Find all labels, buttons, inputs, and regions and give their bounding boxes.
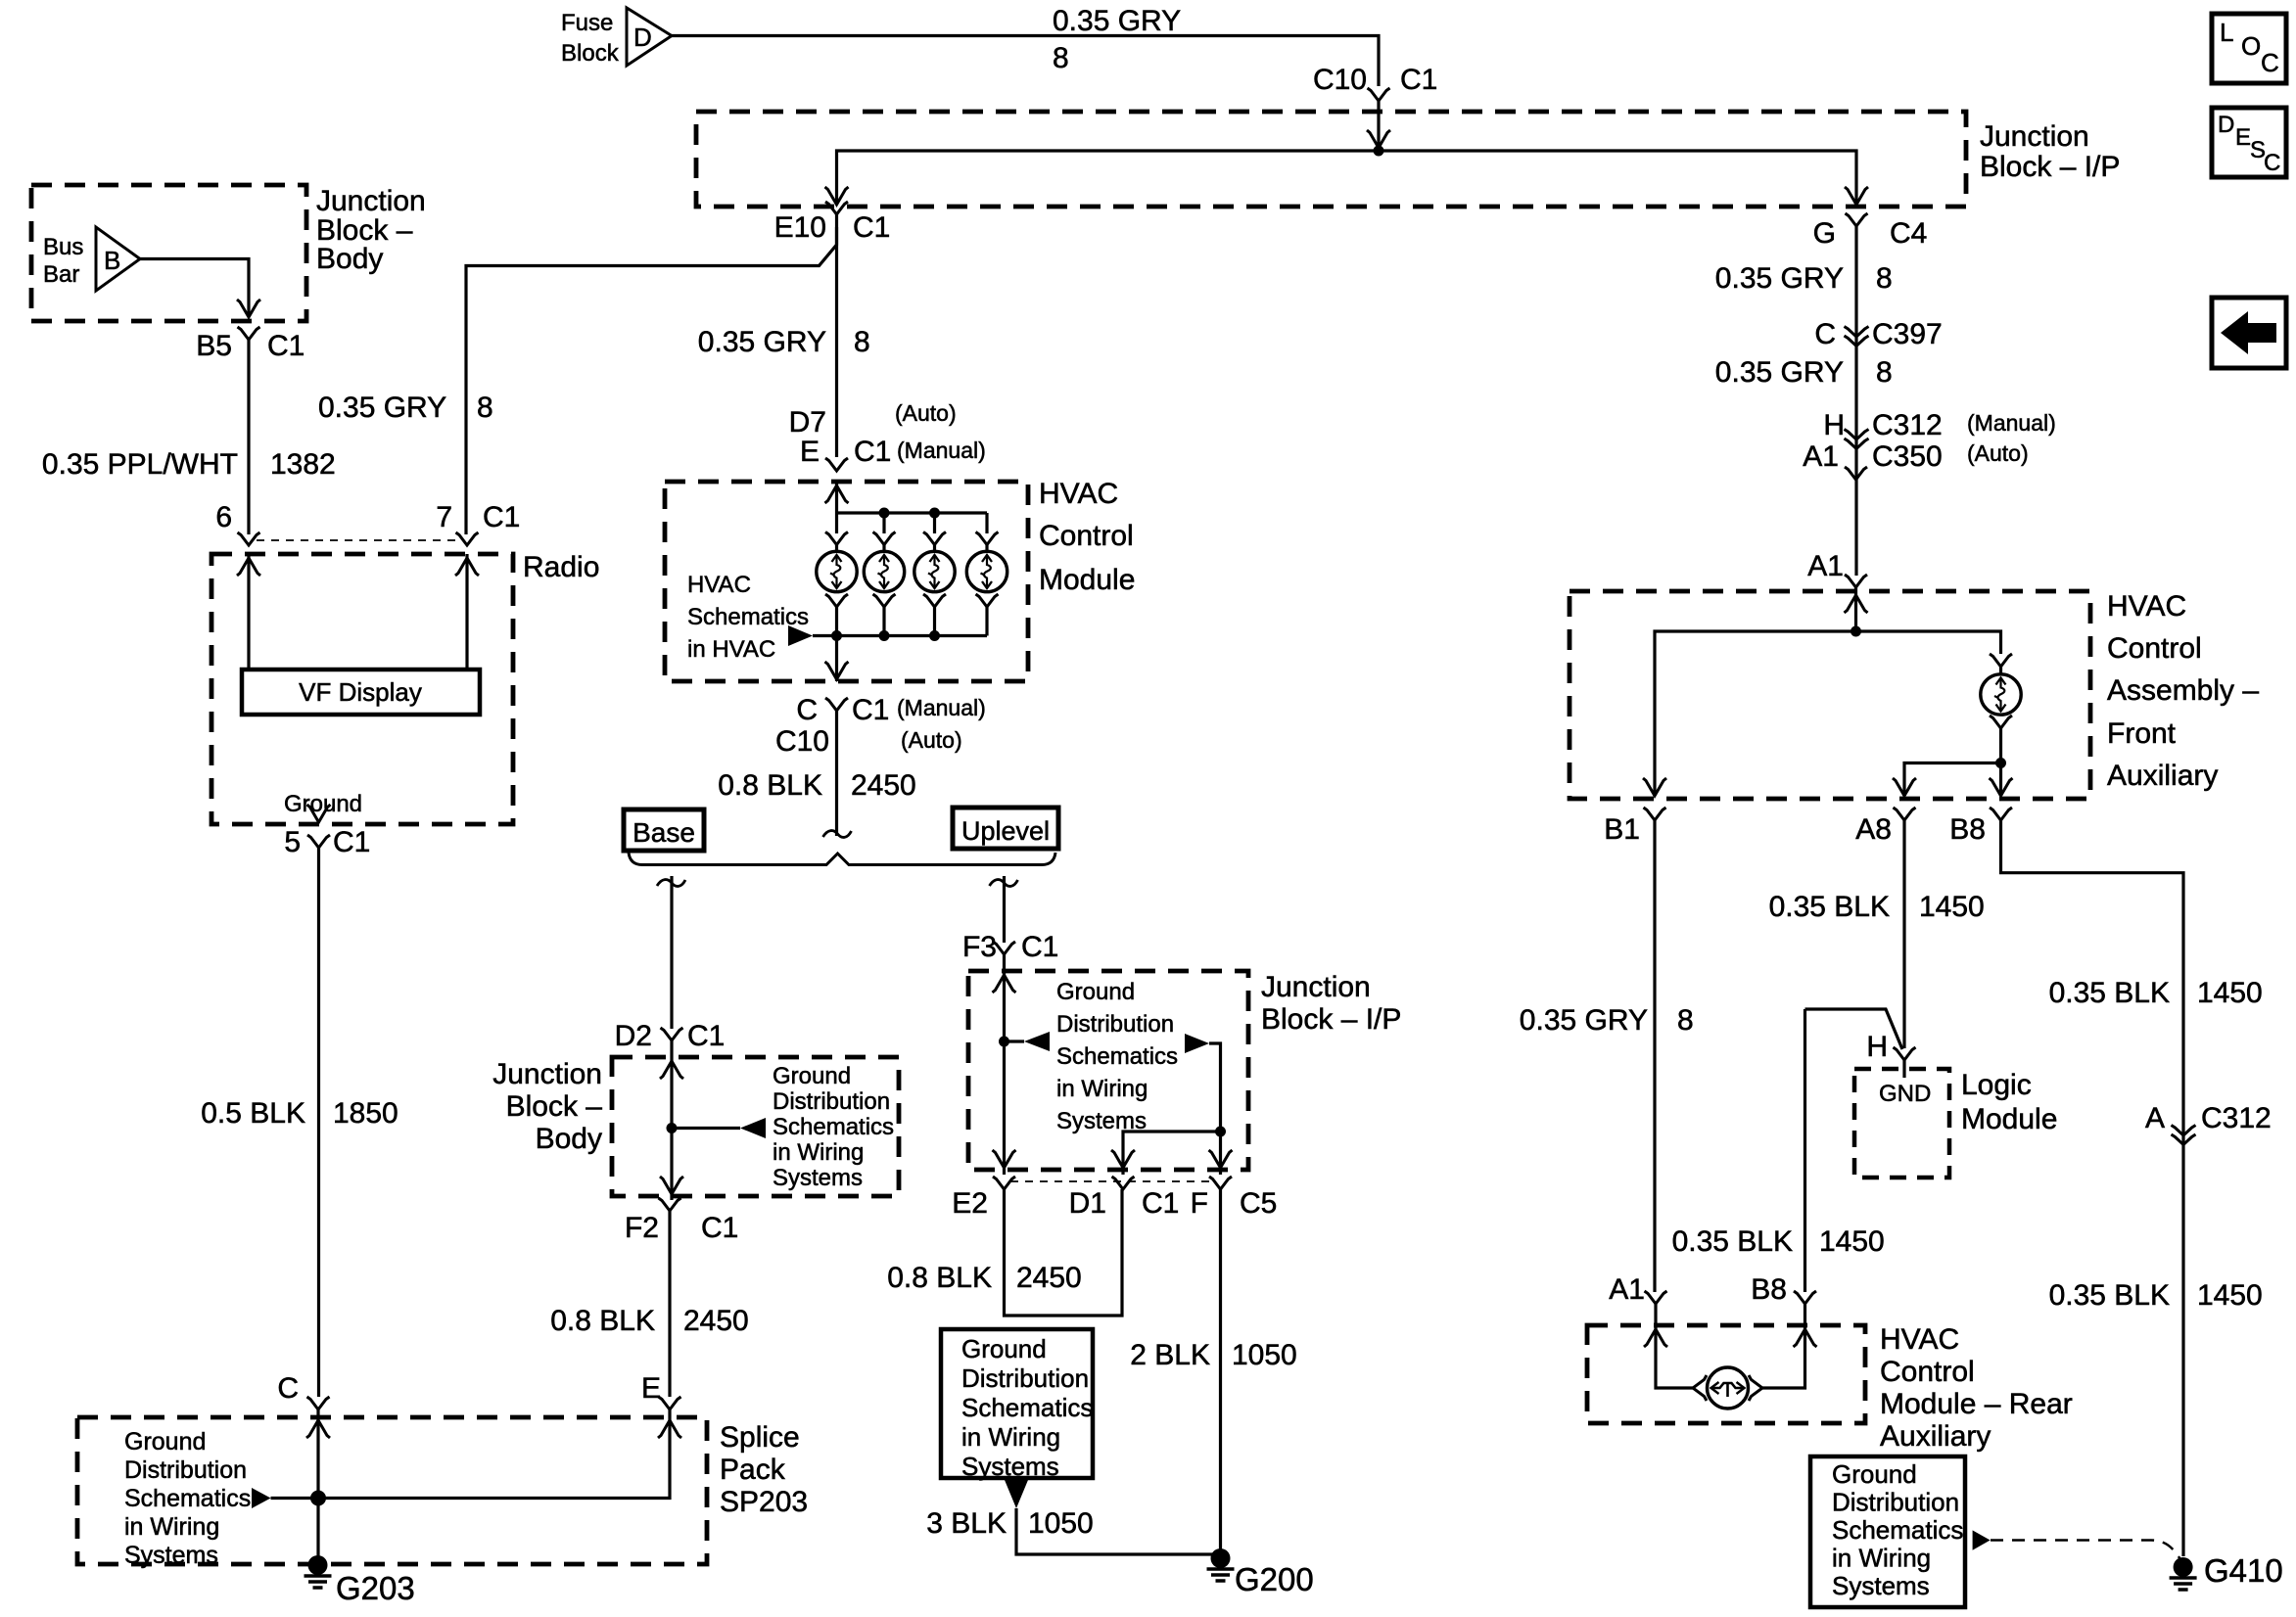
svg-text:G203: G203	[336, 1570, 415, 1606]
svg-text:Junction: Junction	[1261, 971, 1371, 1003]
svg-text:A1: A1	[1807, 550, 1844, 582]
wire to B8 exit	[1999, 763, 2002, 797]
pointer down from box	[1005, 1480, 1028, 1508]
junction block I/P dashed box (top)	[696, 112, 1966, 207]
pointer right to G410	[1973, 1530, 1991, 1549]
split brace	[629, 853, 1055, 865]
svg-text:Schematics: Schematics	[687, 604, 809, 630]
connector right of rear actuator	[1749, 1375, 1762, 1401]
connector F2 C1	[659, 1198, 681, 1211]
svg-text:H: H	[1866, 1031, 1888, 1063]
wire C into splice to G203	[316, 1409, 319, 1565]
dot bottom bus 2	[929, 630, 940, 641]
svg-text:(Auto): (Auto)	[1967, 440, 2029, 466]
svg-text:C1: C1	[333, 826, 370, 858]
svg-text:(Auto): (Auto)	[901, 727, 962, 753]
svg-text:Pack: Pack	[720, 1454, 786, 1486]
squiggle left branch	[657, 880, 685, 887]
svg-text:0.35 BLK: 0.35 BLK	[1769, 891, 1890, 923]
wire E into splice	[271, 1409, 671, 1499]
arrow pin7	[455, 558, 479, 576]
svg-text:Body: Body	[316, 243, 383, 275]
connector B8 rear aux	[1794, 1291, 1816, 1304]
svg-text:C1: C1	[687, 1020, 725, 1052]
connector C10 C1 at junction block I/P	[1368, 88, 1390, 101]
ground distribution schematics box (bottom right)	[1810, 1456, 1965, 1607]
wire to C5 exit	[1219, 1132, 1222, 1175]
svg-text:C: C	[2261, 48, 2279, 77]
svg-text:C1: C1	[1400, 64, 1437, 96]
svg-text:Systems: Systems	[1832, 1571, 1930, 1600]
svg-text:2450: 2450	[683, 1305, 749, 1337]
entry wire A1	[1854, 587, 1857, 631]
svg-text:1450: 1450	[1819, 1225, 1885, 1258]
HVAC control module rear auxiliary dashed box	[1587, 1325, 1865, 1423]
svg-text:(Auto): (Auto)	[895, 400, 957, 426]
svg-text:1050: 1050	[1028, 1507, 1094, 1540]
svg-text:B1: B1	[1604, 813, 1640, 846]
svg-text:D: D	[2218, 112, 2234, 138]
svg-text:Distribution: Distribution	[1832, 1488, 1959, 1517]
Base option box	[624, 809, 704, 851]
connector B1	[1644, 808, 1666, 820]
connector A1 rear aux	[1645, 1291, 1667, 1304]
radio pin7 wire to VF display	[465, 554, 468, 670]
pointer to ground distribution schematics	[740, 1118, 766, 1138]
exit arrow C5	[1209, 1150, 1233, 1168]
connector below motor 3	[923, 594, 946, 607]
svg-text:Control: Control	[1880, 1356, 1975, 1388]
svg-text:HVAC: HVAC	[2107, 590, 2186, 623]
wire C5 to G200 (2 BLK 1050)	[1219, 1189, 1222, 1551]
wire E10 to HVAC control module (0.35 GRY 8)	[835, 227, 838, 457]
DESC reference box	[2212, 108, 2286, 177]
connector Y at HVAC module E/C1	[825, 458, 848, 471]
wire bus bar to B5	[140, 259, 249, 318]
svg-text:Splice: Splice	[720, 1421, 800, 1454]
ground G410	[2174, 1557, 2193, 1577]
svg-text:B8: B8	[1949, 813, 1986, 846]
svg-text:Ground: Ground	[773, 1063, 851, 1089]
svg-text:E: E	[641, 1372, 661, 1405]
svg-text:1050: 1050	[1232, 1339, 1297, 1371]
pointer left to ground distribution schematics	[252, 1488, 271, 1508]
svg-text:0.35 GRY: 0.35 GRY	[1715, 356, 1844, 389]
back arrow box	[2212, 298, 2286, 368]
svg-text:8: 8	[1053, 42, 1069, 74]
svg-text:Systems: Systems	[124, 1542, 218, 1569]
svg-text:GND: GND	[1879, 1081, 1931, 1107]
motor/actuator M1	[817, 551, 857, 591]
entry arrow F3	[993, 975, 1016, 993]
junction dot at bus	[1374, 146, 1384, 157]
double chevron C312/C350	[1845, 430, 1869, 440]
svg-text:8: 8	[854, 326, 870, 358]
svg-text:D: D	[633, 23, 652, 52]
svg-text:Auxiliary: Auxiliary	[2107, 760, 2218, 792]
svg-text:0.35 GRY: 0.35 GRY	[1520, 1004, 1648, 1037]
svg-text:Ground: Ground	[961, 1334, 1047, 1363]
wire E10 branch to radio pin 7 (0.35 GRY 8)	[466, 214, 837, 534]
svg-text:A8: A8	[1855, 813, 1892, 846]
wire A8 to logic module H (0.35 BLK 1450)	[1902, 820, 1905, 1048]
exit arrow A8	[1893, 778, 1916, 796]
svg-text:D2: D2	[615, 1020, 652, 1052]
connector above motor 2	[873, 532, 896, 545]
entry arrow C	[306, 1420, 330, 1438]
connector below actuator	[1990, 716, 2012, 728]
svg-text:Control: Control	[2107, 632, 2202, 665]
VF Display box	[242, 670, 480, 715]
entry arrow	[660, 1061, 683, 1079]
arrow to E10 exit	[825, 187, 849, 205]
svg-text:HVAC: HVAC	[687, 572, 751, 598]
svg-text:in Wiring: in Wiring	[124, 1513, 219, 1541]
svg-text:Radio: Radio	[523, 551, 599, 583]
svg-text:0.35 BLK: 0.35 BLK	[1672, 1225, 1793, 1258]
junction dot front aux	[1851, 626, 1861, 637]
junction dot splice	[310, 1491, 326, 1506]
svg-text:in HVAC: in HVAC	[687, 636, 775, 663]
squiggle right branch	[990, 880, 1018, 887]
svg-text:C5: C5	[1240, 1187, 1277, 1220]
connector B8	[1990, 808, 2012, 820]
svg-text:HVAC: HVAC	[1880, 1323, 1959, 1356]
svg-text:0.8 BLK: 0.8 BLK	[550, 1305, 655, 1337]
svg-text:L: L	[2220, 18, 2233, 47]
svg-text:C350: C350	[1872, 440, 1943, 473]
svg-text:Schematics: Schematics	[961, 1393, 1093, 1422]
wire 3 BLK 1050 to G200	[1016, 1508, 1221, 1558]
entry arrow E	[658, 1420, 681, 1438]
arrow pin6	[237, 558, 260, 576]
wire A1 into rear aux	[1656, 1304, 1693, 1388]
motor/actuator M3	[914, 551, 955, 591]
right branch wire (Uplevel)	[1003, 876, 1006, 943]
exit arrow B1	[1643, 778, 1666, 796]
svg-text:Bar: Bar	[43, 261, 79, 288]
svg-text:8: 8	[477, 392, 493, 424]
svg-text:0.35 PPL/WHT: 0.35 PPL/WHT	[42, 448, 238, 481]
svg-text:Base: Base	[633, 817, 695, 848]
junction dot in body block	[667, 1123, 678, 1133]
svg-text:VF Display: VF Display	[299, 677, 422, 707]
connector D2 C1	[661, 1028, 683, 1040]
svg-text:HVAC: HVAC	[1039, 478, 1118, 510]
svg-text:8: 8	[1677, 1004, 1694, 1037]
connector G C4	[1846, 213, 1868, 226]
svg-text:0.35 BLK: 0.35 BLK	[2049, 1279, 2170, 1312]
connector H at logic module	[1894, 1047, 1916, 1060]
svg-text:Distribution: Distribution	[961, 1363, 1089, 1393]
svg-text:7: 7	[436, 501, 452, 533]
exit arrow D1	[1111, 1150, 1135, 1168]
svg-text:Block – I/P: Block – I/P	[1980, 151, 2120, 183]
svg-text:Systems: Systems	[773, 1165, 863, 1191]
double chevron A C312	[2172, 1126, 2196, 1136]
svg-text:G410: G410	[2204, 1552, 2283, 1589]
svg-text:D1: D1	[1069, 1187, 1106, 1220]
svg-text:Auxiliary: Auxiliary	[1880, 1420, 1991, 1453]
connector E10 C1	[825, 202, 848, 214]
HVAC control module dashed box	[665, 482, 1028, 681]
svg-text:Junction: Junction	[316, 185, 426, 217]
svg-text:in Wiring: in Wiring	[1832, 1544, 1931, 1573]
svg-text:2450: 2450	[851, 769, 916, 802]
entry arrow A1 rear	[1644, 1329, 1667, 1347]
connector above motor 1	[825, 532, 848, 545]
svg-text:Fuse: Fuse	[561, 10, 613, 36]
exit arrow	[660, 1177, 683, 1194]
svg-text:Logic: Logic	[1961, 1069, 2032, 1101]
radio pin6 wire to VF display	[247, 554, 250, 670]
svg-text:1450: 1450	[2197, 977, 2263, 1009]
wire F3 into junction block I/P	[1003, 954, 1006, 1039]
svg-text:1850: 1850	[333, 1097, 398, 1130]
svg-text:Block –: Block –	[506, 1090, 603, 1123]
wire B5 to radio pin 6 (0.35 PPL/WHT 1382)	[247, 340, 250, 534]
radio dashed box	[211, 554, 513, 824]
thin dashed connector line (E2 D1 C5)	[1010, 1180, 1214, 1182]
Uplevel option box	[953, 808, 1058, 849]
junction block - body dashed box (middle)	[612, 1057, 899, 1196]
wire-break squiggle	[823, 831, 852, 838]
junction dot I/P block	[999, 1037, 1009, 1047]
svg-text:SP203: SP203	[720, 1486, 808, 1518]
svg-text:Module: Module	[1039, 564, 1135, 596]
connector Y below C350	[1845, 467, 1867, 480]
junction dot below actuator	[1995, 758, 2006, 768]
svg-text:Block – I/P: Block – I/P	[1261, 1003, 1401, 1036]
feed motor 3	[933, 513, 936, 533]
connector below motor 1	[825, 594, 848, 607]
U wire E2 to D1 (0.8 BLK 2450)	[1005, 1189, 1123, 1316]
svg-text:6: 6	[215, 501, 232, 533]
module top bus	[837, 511, 988, 514]
svg-text:C397: C397	[1872, 318, 1943, 350]
svg-text:1382: 1382	[270, 448, 336, 481]
svg-text:C312: C312	[1872, 409, 1943, 441]
rear auxiliary actuator	[1708, 1367, 1749, 1409]
wire B8 into rear aux	[1762, 1304, 1805, 1388]
svg-text:Systems: Systems	[961, 1452, 1059, 1481]
motor/actuator M2	[864, 551, 904, 591]
connector A8	[1894, 808, 1916, 820]
wire down to rear auxiliary B8 (0.35 BLK 1450)	[1804, 1009, 1806, 1292]
wire into junction block body	[670, 1040, 673, 1126]
svg-text:G: G	[1813, 217, 1836, 250]
connector above actuator	[1990, 654, 2012, 667]
connector B5 C1	[238, 327, 260, 340]
svg-text:0.35 GRY: 0.35 GRY	[698, 326, 826, 358]
dot on top bus	[879, 508, 890, 519]
svg-text:3 BLK: 3 BLK	[926, 1507, 1007, 1540]
svg-text:C312: C312	[2201, 1102, 2272, 1134]
double chevron C397	[1845, 327, 1869, 338]
svg-text:(Manual): (Manual)	[897, 438, 986, 463]
dot bottom bus	[879, 630, 890, 641]
svg-text:B: B	[104, 246, 120, 275]
svg-text:E10: E10	[774, 211, 826, 244]
svg-text:in Wiring: in Wiring	[773, 1139, 864, 1166]
connector D1 C1	[1112, 1177, 1135, 1189]
svg-text:in Wiring: in Wiring	[961, 1422, 1060, 1452]
connector C C1 / C10 (Manual)(Auto)	[825, 698, 848, 711]
svg-text:E2: E2	[952, 1187, 988, 1220]
svg-text:C1: C1	[701, 1212, 738, 1244]
connector F C5	[1209, 1177, 1232, 1189]
connector above motor 4	[976, 532, 999, 545]
junction block I/P dashed box (middle)	[968, 971, 1248, 1170]
wire entry into module	[835, 482, 838, 513]
svg-text:in Wiring: in Wiring	[1056, 1076, 1148, 1102]
svg-text:C1: C1	[854, 436, 891, 468]
svg-text:Junction: Junction	[492, 1058, 602, 1090]
svg-text:C: C	[1814, 318, 1836, 350]
svg-text:C1: C1	[267, 330, 305, 362]
connector below motor 2	[873, 594, 896, 607]
wire G down to front auxiliary (0.35 GRY 8)	[1854, 226, 1857, 576]
wire B8 right to G410 (0.35 BLK 1450)	[2001, 820, 2184, 1556]
svg-text:Schematics: Schematics	[1056, 1043, 1178, 1070]
svg-text:C1: C1	[853, 211, 890, 244]
HVAC control assembly front auxiliary dashed box	[1570, 591, 2090, 799]
arrow into bus	[1367, 130, 1390, 148]
LOC reference box	[2212, 14, 2286, 83]
entry arrow A1	[1845, 595, 1868, 613]
wire out of body block	[670, 1129, 673, 1201]
feed motor 1	[835, 513, 838, 533]
svg-text:B8: B8	[1751, 1273, 1787, 1306]
svg-text:0.35 GRY: 0.35 GRY	[1053, 5, 1181, 37]
module exit wire to C	[835, 636, 838, 682]
svg-text:C1: C1	[1142, 1187, 1179, 1220]
svg-text:5: 5	[284, 826, 301, 858]
svg-text:Bus: Bus	[43, 234, 83, 260]
svg-text:0.35 GRY: 0.35 GRY	[1715, 262, 1844, 295]
svg-text:Body: Body	[536, 1123, 602, 1155]
svg-text:Distribution: Distribution	[1056, 1011, 1174, 1038]
pointer left (ground distribution schematics)	[1024, 1032, 1050, 1051]
svg-text:G200: G200	[1235, 1561, 1314, 1597]
svg-text:A1: A1	[1609, 1273, 1645, 1306]
wire pointer to C5 drop	[1209, 1043, 1221, 1130]
svg-text:F3: F3	[962, 931, 997, 963]
svg-text:2450: 2450	[1016, 1262, 1082, 1294]
connector above motor 3	[923, 532, 946, 545]
actuator front auxiliary	[1981, 674, 2021, 715]
feed motor 4	[985, 513, 988, 533]
radio ground exit arrow	[307, 805, 331, 822]
thin dashed connector line	[257, 539, 458, 541]
svg-text:8: 8	[1876, 356, 1893, 389]
svg-text:H: H	[1823, 409, 1845, 441]
wire F2 to splice pack E (0.8 BLK 2450)	[668, 1211, 671, 1397]
svg-text:E: E	[2235, 124, 2251, 151]
pointer to HVAC schematics	[788, 625, 813, 646]
stub to schematics pointer	[672, 1127, 740, 1130]
svg-text:2 BLK: 2 BLK	[1130, 1339, 1210, 1371]
ground G200	[1211, 1548, 1231, 1568]
svg-text:Distribution: Distribution	[124, 1456, 247, 1484]
svg-text:Schematics: Schematics	[124, 1485, 251, 1512]
svg-text:A1: A1	[1803, 440, 1839, 473]
connector left of rear actuator	[1693, 1375, 1707, 1401]
svg-text:0.5 BLK: 0.5 BLK	[201, 1097, 305, 1130]
feed motor 2	[882, 513, 885, 533]
junction block - body dashed box (top left)	[31, 185, 306, 321]
svg-text:C1: C1	[1021, 931, 1058, 963]
wire fuse block to junction block I/P (0.35 GRY 8)	[672, 36, 1379, 87]
arrow to B5 exit	[237, 300, 260, 317]
wire entry into junction block I/P	[1377, 101, 1380, 148]
svg-text:1450: 1450	[1919, 891, 1985, 923]
svg-text:Schematics: Schematics	[1832, 1515, 1963, 1545]
svg-text:Block: Block	[561, 40, 620, 67]
module bottom bus	[837, 634, 988, 637]
svg-text:F: F	[1191, 1187, 1208, 1220]
left arrow icon	[2221, 311, 2276, 354]
svg-text:0.8 BLK: 0.8 BLK	[887, 1262, 992, 1294]
pointer right	[1185, 1034, 1209, 1053]
svg-text:1450: 1450	[2197, 1279, 2263, 1312]
svg-text:C: C	[2264, 150, 2280, 176]
wire to A8 exit	[1904, 763, 2001, 797]
junction dot right	[1215, 1127, 1226, 1137]
front aux bus	[1655, 631, 2001, 796]
dot bottom bus left	[831, 630, 842, 641]
svg-text:Front: Front	[2107, 717, 2177, 750]
dot on top bus 2	[929, 508, 940, 519]
svg-text:D7: D7	[789, 406, 826, 439]
ground distribution schematics box (middle)	[941, 1329, 1093, 1478]
wire C10 down to base/uplevel brace (0.8 BLK 2450)	[835, 711, 838, 836]
entry arrow at module top	[825, 485, 849, 503]
svg-text:E: E	[800, 436, 820, 468]
wire H to rear aux B8 jog	[1805, 1009, 1903, 1049]
entry arrow B8 rear	[1794, 1329, 1817, 1347]
connector below motor 4	[976, 594, 999, 607]
svg-text:Ground: Ground	[124, 1428, 206, 1455]
wire to D1 exit	[1123, 1132, 1221, 1175]
svg-text:(Manual): (Manual)	[1967, 410, 2056, 436]
svg-text:8: 8	[1876, 262, 1893, 295]
exit arrow at module bottom	[825, 662, 849, 679]
svg-text:Distribution: Distribution	[773, 1088, 890, 1115]
wire B1 to rear auxiliary A1 (0.35 GRY 8)	[1653, 820, 1656, 1292]
svg-text:C10: C10	[775, 725, 829, 758]
svg-text:C1: C1	[852, 694, 889, 726]
svg-text:B5: B5	[196, 330, 232, 362]
svg-text:Module: Module	[1961, 1103, 2057, 1135]
svg-text:C4: C4	[1890, 217, 1927, 250]
svg-text:Uplevel: Uplevel	[961, 816, 1050, 846]
svg-text:0.35 GRY: 0.35 GRY	[318, 392, 446, 424]
svg-text:C: C	[796, 694, 818, 726]
arrow to G exit	[1845, 187, 1868, 205]
svg-text:Control: Control	[1039, 520, 1134, 552]
motor/actuator M4	[966, 551, 1007, 591]
exit arrow B8	[1990, 778, 2013, 796]
svg-text:C10: C10	[1313, 64, 1367, 96]
wire to E2 exit	[1003, 1041, 1006, 1175]
svg-text:0.8 BLK: 0.8 BLK	[718, 769, 822, 802]
svg-text:0.35 BLK: 0.35 BLK	[2049, 977, 2170, 1009]
wire radio ground to splice pack C (0.5 BLK 1850)	[317, 848, 320, 1397]
logic module dashed box	[1854, 1069, 1949, 1178]
svg-text:C: C	[277, 1372, 299, 1405]
connector E2	[993, 1177, 1015, 1189]
